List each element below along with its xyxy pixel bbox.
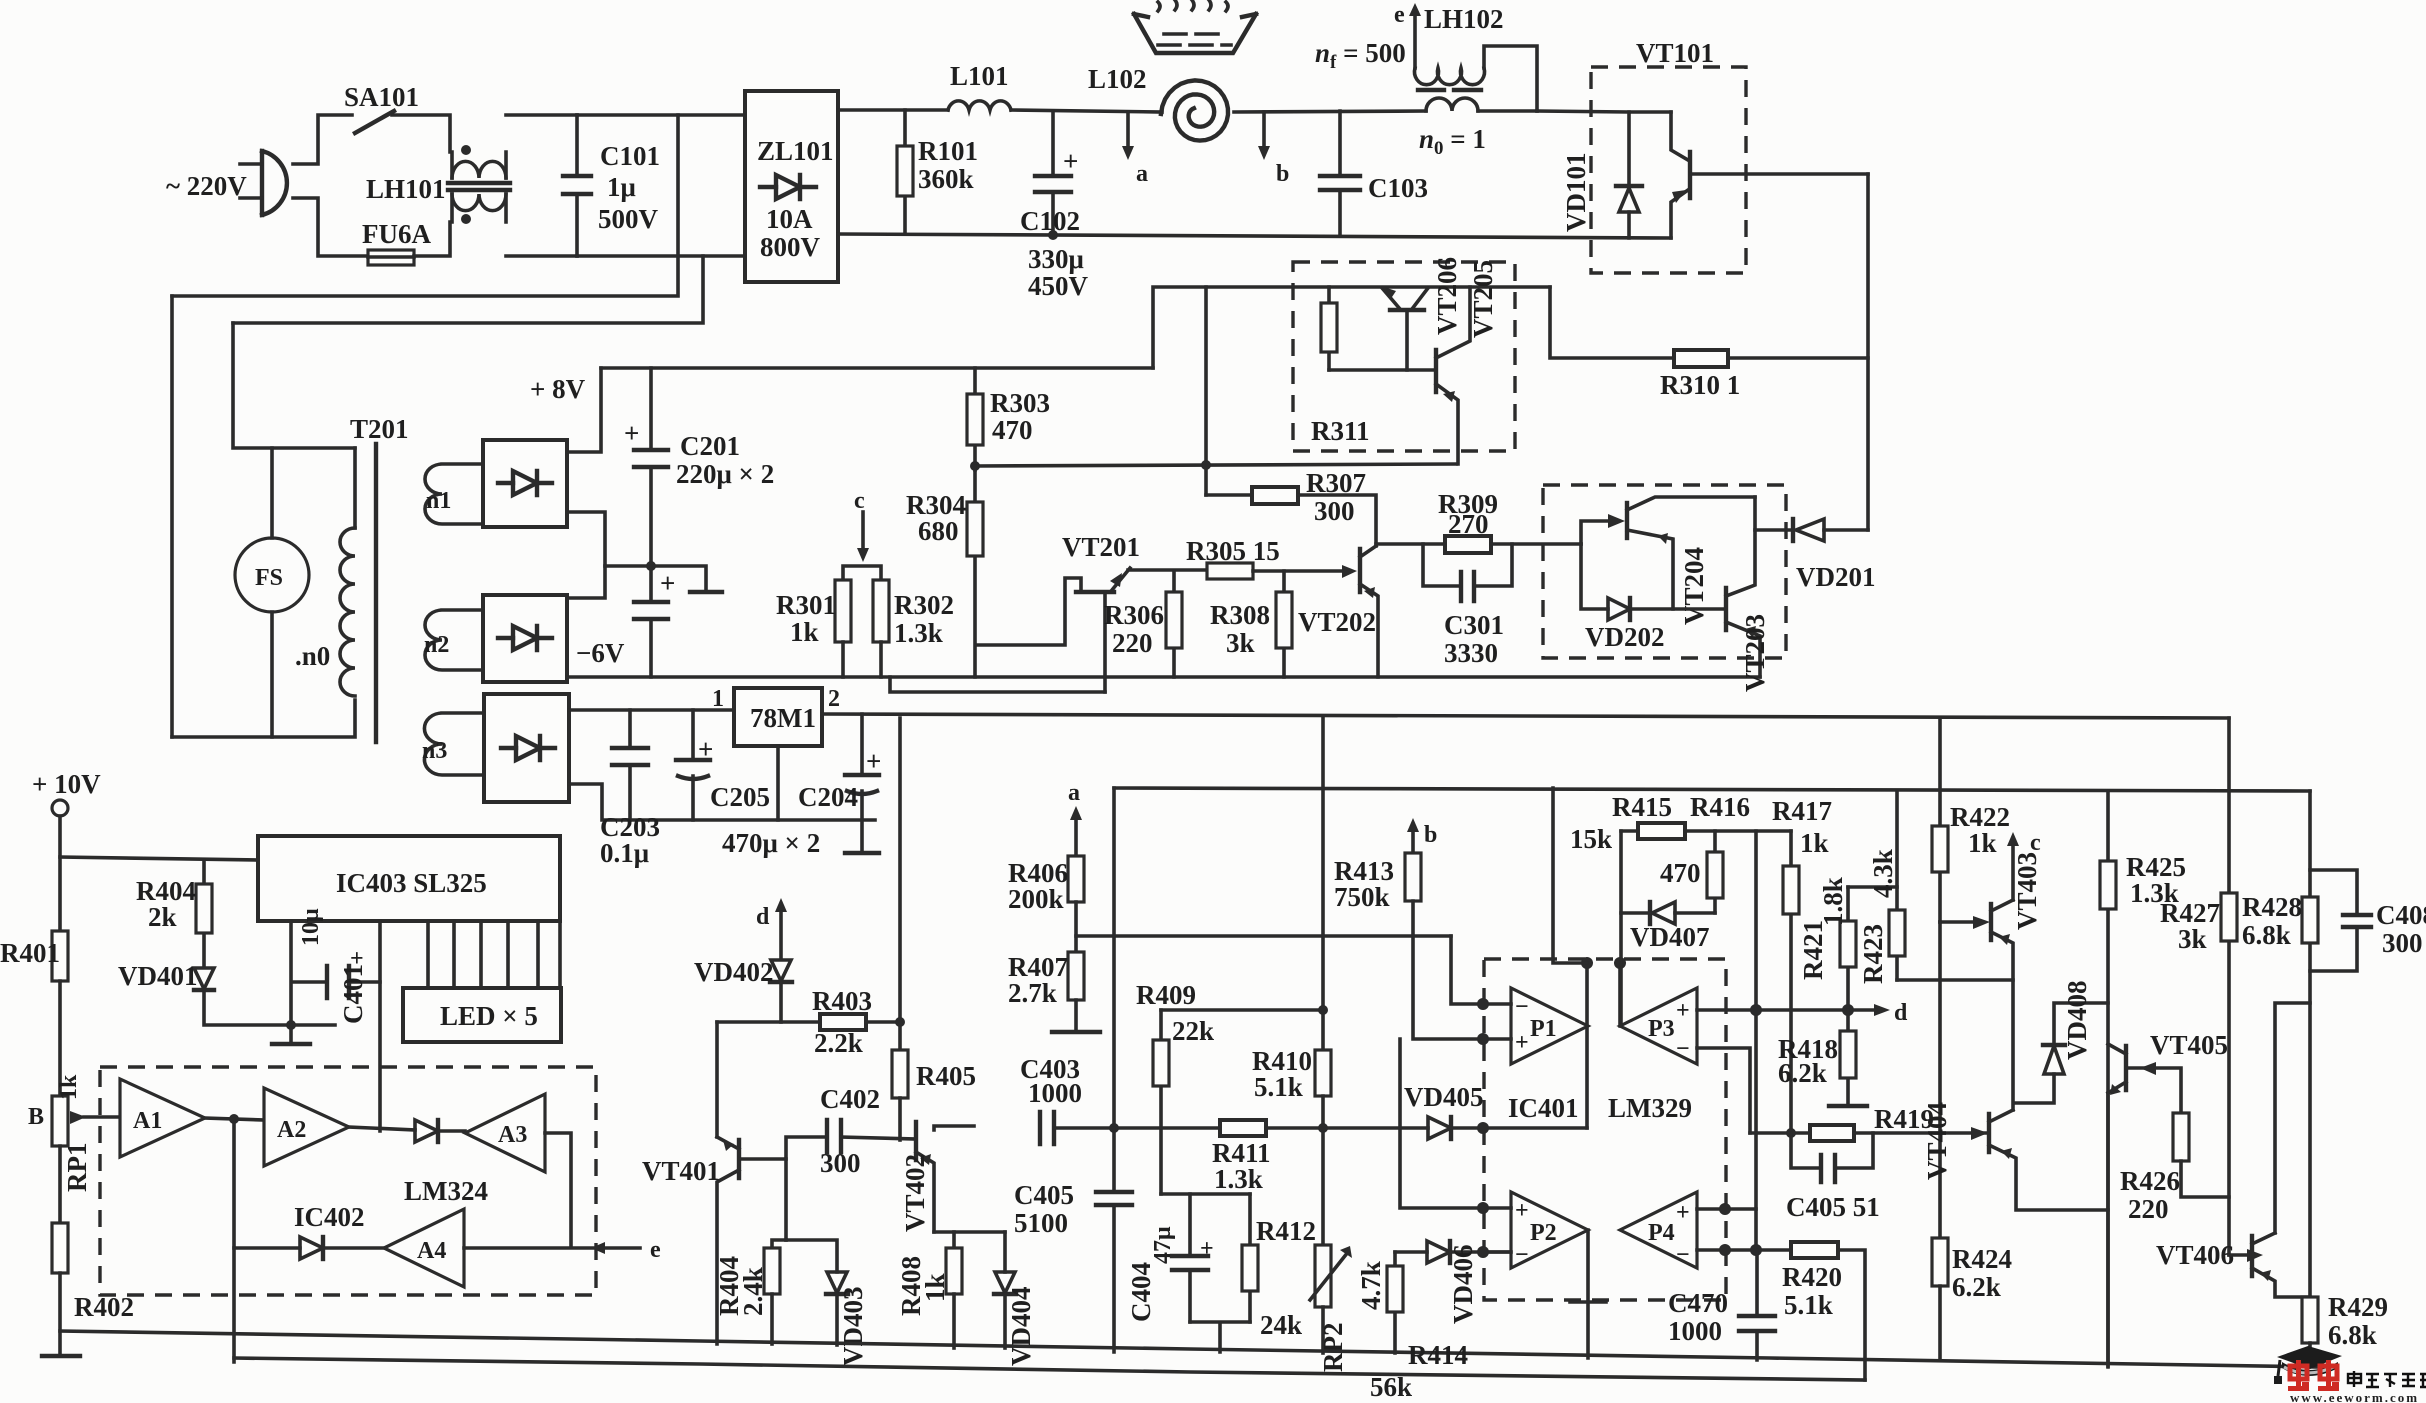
resistor R101 [903, 110, 907, 234]
wire P3+ to d [1697, 1008, 1848, 1012]
svg-text:800V: 800V [760, 232, 821, 262]
svg-text:C204: C204 [798, 782, 858, 812]
transistor VT204 [1581, 521, 1608, 544]
svg-text:R405: R405 [916, 1061, 976, 1091]
watermark cap logo [2277, 1346, 2342, 1369]
diode VD201 [1796, 519, 1824, 541]
SEC4 [776, 257, 1876, 692]
svg-text:2.7k: 2.7k [1008, 978, 1057, 1008]
diode VD407 [1619, 831, 1623, 1026]
svg-text:6.8k: 6.8k [2242, 920, 2291, 950]
SEC11 [2274, 1346, 2426, 1403]
svg-text:220μ × 2: 220μ × 2 [676, 459, 774, 489]
svg-text:+: + [698, 734, 713, 764]
wire fuse to LH101 bottom [414, 222, 450, 256]
svg-text:T201: T201 [350, 414, 409, 444]
diode VD403 [786, 1240, 837, 1272]
svg-text:−: − [1676, 1036, 1690, 1062]
wire AC-L to T201 primary [170, 296, 174, 737]
resistor R406 [1068, 856, 1084, 902]
SEC5 [0, 769, 661, 1362]
svg-text:1μ: 1μ [607, 172, 636, 202]
wire switch to LH101 [392, 115, 450, 152]
svg-text:220: 220 [1112, 628, 1153, 658]
svg-text:1k: 1k [1968, 828, 1997, 858]
svg-text:C470: C470 [1668, 1288, 1728, 1318]
wire P4- to R420 [1697, 1248, 1791, 1252]
svg-text:−6V: −6V [576, 638, 625, 668]
svg-text:b: b [1424, 822, 1437, 848]
svg-text:R409: R409 [1136, 980, 1196, 1010]
wire R409 top [1161, 1008, 1323, 1012]
bridge rectifier D-n3 [484, 694, 569, 802]
op-amp P1 [1511, 988, 1588, 1064]
resistor R410 [1315, 1050, 1331, 1096]
wire C101 to ZL101 bottom [577, 254, 745, 258]
node e arrow [1413, 16, 1417, 68]
wire A1 to A2 [205, 1118, 264, 1120]
diode D-A4 [300, 1237, 323, 1259]
op-amp P3 [1620, 988, 1697, 1064]
ground at C201 [651, 566, 706, 591]
resistor R425 [2106, 791, 2110, 1367]
winding n2 [425, 610, 483, 670]
svg-text:360k: 360k [918, 164, 974, 194]
diode VD202 [1581, 544, 1608, 609]
svg-text:1: 1 [712, 686, 724, 712]
capacitor C201 lower [649, 566, 653, 677]
wire R311 to R310 [1550, 287, 1674, 358]
wire A-block drop [232, 1248, 236, 1362]
svg-text:200k: 200k [1008, 884, 1064, 914]
module box R311 [1293, 262, 1515, 451]
wire bridge3 return [569, 784, 875, 820]
resistor R301 [835, 580, 851, 642]
wire plug to switch [293, 115, 352, 164]
resistor R311-int [1327, 287, 1331, 370]
svg-text:VT205: VT205 [1468, 260, 1498, 338]
bridge rectifier D-n2 [483, 595, 567, 682]
capacitor C203 [628, 710, 632, 820]
svg-text:IC402: IC402 [294, 1202, 365, 1232]
wire bridge3 to 78M1 [569, 708, 734, 712]
ZL101 diode symbol [760, 175, 816, 199]
svg-text:R412: R412 [1256, 1216, 1316, 1246]
capacitor C405b [1112, 1128, 1116, 1352]
svg-text:R303: R303 [990, 388, 1050, 418]
wire tap to P1- [1451, 936, 1483, 1004]
wire L101 to L102 [1011, 110, 1162, 112]
svg-text:VD101: VD101 [1561, 153, 1591, 233]
svg-text:3330: 3330 [1444, 638, 1498, 668]
svg-text:C408: C408 [2376, 900, 2426, 930]
resistor R429 [2302, 1297, 2318, 1343]
wire tap L down (x678) [172, 115, 678, 296]
capacitor C205 [691, 710, 695, 820]
diode VD101 [1627, 112, 1631, 238]
op-amp P2 [1511, 1192, 1588, 1268]
svg-text:ZL101: ZL101 [757, 136, 834, 166]
svg-text:5.1k: 5.1k [1784, 1290, 1833, 1320]
transistor VT101 [1671, 112, 1688, 160]
svg-text:b: b [1276, 161, 1289, 187]
svg-text:R426: R426 [2120, 1166, 2180, 1196]
svg-text:~ 220V: ~ 220V [166, 171, 247, 201]
svg-text:300: 300 [2382, 928, 2423, 958]
P1/P3 output risers [1587, 963, 1620, 1128]
svg-text:R301: R301 [776, 590, 836, 620]
SEC8 [1477, 788, 1988, 1380]
svg-text:300: 300 [820, 1148, 861, 1178]
riser from y788 [1553, 788, 1587, 963]
svg-text:R415: R415 [1612, 792, 1672, 822]
capacitor C102 [1051, 111, 1055, 235]
wire A2 out [349, 1127, 415, 1130]
svg-text:C103: C103 [1368, 173, 1428, 203]
resistor R404 [202, 860, 206, 966]
op-amp A1 [120, 1079, 205, 1157]
svg-text:300: 300 [1314, 496, 1355, 526]
bridge rectifier D-n1 [483, 440, 567, 527]
wire R303/R304 node [975, 464, 1456, 466]
svg-text:e: e [650, 1237, 661, 1263]
wire riser to R307 [1204, 287, 1208, 495]
svg-text:R428: R428 [2242, 892, 2302, 922]
resistor R401 [52, 931, 68, 981]
svg-text:VD401: VD401 [118, 961, 198, 991]
P2 output to gnd rail [1586, 1230, 1590, 1358]
wire c split [843, 566, 881, 580]
svg-text:+: + [1515, 1198, 1529, 1224]
resistor R308 [1282, 571, 1286, 677]
wire VT201 emitter to rail [890, 677, 1105, 692]
wire VT201 collector to R305 line [1128, 568, 1206, 572]
svg-text:C205: C205 [710, 782, 770, 812]
svg-text:L102: L102 [1088, 64, 1147, 94]
wire A3 in from right [545, 1133, 571, 1246]
wire +8V up to R311 feed [1153, 287, 1550, 368]
svg-text:VD201: VD201 [1796, 562, 1876, 592]
svg-text:330μ: 330μ [1028, 244, 1084, 274]
SEC1 [838, 0, 1671, 301]
svg-text:R414: R414 [1408, 1340, 1468, 1370]
wire P3- down [1697, 1048, 1750, 1133]
riser V2 R428 [2308, 791, 2312, 1297]
wire R413 to P1+/P2+ [1400, 901, 1483, 1208]
svg-text:VT204: VT204 [1679, 547, 1709, 625]
svg-text:VT406: VT406 [2156, 1240, 2234, 1270]
svg-text:R423: R423 [1858, 924, 1888, 984]
node C102 [1048, 230, 1058, 240]
resistor R423 [1848, 885, 1897, 889]
fan motor FS [235, 538, 309, 612]
LH102 secondary winding nf [1414, 68, 1484, 85]
resistor R412 [1248, 1194, 1252, 1322]
node C401 gnd [286, 1020, 296, 1030]
svg-text:+: + [1063, 146, 1078, 176]
transistor VT203 [1724, 588, 1728, 630]
riser V1 R427 [2227, 718, 2231, 1255]
svg-text:1.3k: 1.3k [1214, 1164, 1263, 1194]
svg-text:VT101: VT101 [1636, 38, 1714, 68]
steam [1158, 0, 1228, 11]
svg-text:6.2k: 6.2k [1778, 1058, 1827, 1088]
svg-text:P4: P4 [1648, 1220, 1675, 1246]
resistor R306 [1172, 571, 1176, 677]
wire ZL101 DC- out [838, 234, 1671, 238]
svg-text:R308: R308 [1210, 600, 1270, 630]
svg-text:1000: 1000 [1668, 1316, 1722, 1346]
svg-text:LH102: LH102 [1424, 4, 1504, 34]
svg-text:24k: 24k [1260, 1310, 1302, 1340]
LED display box [403, 988, 561, 1042]
LH102 secondary right lead [1484, 46, 1537, 111]
SEC6 [642, 718, 1036, 1366]
svg-text:R420: R420 [1782, 1262, 1842, 1292]
resistor R303 [973, 368, 977, 470]
svg-text:A2: A2 [277, 1117, 306, 1143]
watermark site name glyphs [2348, 1371, 2426, 1387]
wire tap N down (x703) [233, 256, 703, 323]
svg-text:C101: C101 [600, 141, 660, 171]
svg-text:VT405: VT405 [2150, 1030, 2228, 1060]
svg-text:+ 8V: + 8V [530, 374, 586, 404]
svg-text:VT403: VT403 [2012, 852, 2042, 930]
svg-text:2: 2 [828, 686, 840, 712]
svg-text:−: − [1515, 994, 1529, 1020]
SEC10 [60, 1093, 2320, 1402]
svg-text:C405 51: C405 51 [1786, 1192, 1880, 1222]
divider tap wire [1076, 934, 1451, 938]
LH102 core bars [1418, 88, 1481, 92]
wire +10V branch [60, 857, 258, 860]
svg-text:R307: R307 [1306, 468, 1366, 498]
svg-text:.n0: .n0 [295, 641, 330, 671]
svg-text:C404: C404 [1126, 1262, 1156, 1322]
svg-text:LED × 5: LED × 5 [440, 1001, 538, 1031]
svg-text:+: + [624, 418, 639, 448]
svg-text:0.1μ: 0.1μ [600, 838, 649, 868]
svg-text:A4: A4 [417, 1238, 446, 1264]
resistor R302 [873, 580, 889, 642]
winding n1 [425, 464, 483, 524]
capacitor C401 [291, 921, 380, 1025]
capacitor C402 [827, 1120, 841, 1152]
capacitor C101 [575, 115, 579, 256]
capacitor C404 [1188, 1194, 1192, 1322]
ground at R402 [42, 1354, 80, 1358]
capacitor C403 [1040, 1112, 1054, 1144]
SEC3 [172, 296, 2229, 868]
svg-text:VD408: VD408 [2062, 981, 2092, 1061]
svg-text:R417: R417 [1772, 796, 1832, 826]
wire L102 to LH102 [1234, 111, 1426, 112]
svg-text:RP1: RP1 [62, 1143, 92, 1193]
svg-text:−: − [1676, 1242, 1690, 1268]
svg-text:P1: P1 [1530, 1016, 1557, 1042]
ground at R418 [1829, 1104, 1867, 1108]
svg-text:L101: L101 [950, 61, 1009, 91]
svg-text:LM329: LM329 [1608, 1093, 1692, 1123]
wire VT401 base [740, 1137, 824, 1159]
resistor R407 [1068, 952, 1084, 1000]
T201 core [374, 444, 378, 742]
svg-text:LH101: LH101 [366, 174, 446, 204]
resistor R418 [1846, 1010, 1850, 1104]
svg-text:P3: P3 [1648, 1016, 1675, 1042]
svg-text:1k: 1k [790, 617, 819, 647]
svg-text:B: B [28, 1104, 44, 1130]
long feed y788 [1114, 788, 2310, 791]
wire bridge1 to +8V riser [567, 368, 601, 452]
potentiometer RP2 [1315, 1245, 1331, 1307]
resistor R-4.7k [1393, 1252, 1397, 1353]
T201 primary winding n0 [172, 448, 355, 737]
svg-text:VD202: VD202 [1585, 622, 1665, 652]
svg-text:+: + [1515, 1030, 1529, 1056]
transistor VT403 [1940, 920, 1973, 924]
svg-text:n1: n1 [426, 488, 451, 514]
potentiometer RP1 [52, 1096, 68, 1146]
riser from bus to R403/R405 [898, 718, 902, 1050]
resistor R413 [1405, 853, 1421, 901]
svg-text:VD406: VD406 [1448, 1245, 1478, 1325]
svg-text:R429: R429 [2328, 1292, 2388, 1322]
svg-text:1k: 1k [56, 1074, 82, 1100]
resistor R404b 2.4k [772, 1240, 786, 1248]
SEC9 [1897, 718, 2426, 1367]
op-amp A4 [384, 1209, 464, 1287]
watermark chongchong red glyph1 [2288, 1360, 2309, 1391]
LH101 phase dots [461, 145, 471, 155]
wire LH101 to C101 bottom [506, 254, 577, 258]
svg-text:d: d [756, 904, 770, 930]
svg-text:220: 220 [2128, 1194, 2169, 1224]
wire LH101 to C101 top [506, 113, 577, 117]
comparator block IC401 dashed box [1484, 959, 1726, 1300]
LH101 top winding [452, 161, 506, 178]
svg-text:+ 10V: + 10V [32, 769, 101, 799]
svg-text:C401: C401 [338, 964, 368, 1024]
op-amp P4 [1620, 1192, 1697, 1268]
svg-text:R424: R424 [1952, 1244, 2012, 1274]
resistor R426 [2173, 1113, 2189, 1161]
svg-text:+: + [1200, 1236, 1214, 1262]
IC403 box [258, 836, 560, 921]
watermark chongchong red glyph2 [2318, 1360, 2339, 1391]
svg-text:www.eeworm.com: www.eeworm.com [2290, 1390, 2419, 1403]
transistor VT206 [1382, 288, 1428, 309]
svg-text:R302: R302 [894, 590, 954, 620]
op-amp A2 [264, 1088, 349, 1166]
node C201 mid [646, 561, 656, 571]
svg-text:−: − [1515, 1242, 1529, 1268]
capacitor C201 upper [649, 368, 653, 566]
bus 78M1 out [822, 714, 2229, 718]
svg-text:R101: R101 [918, 136, 978, 166]
cooking pot [1134, 14, 1256, 53]
svg-text:SA101: SA101 [344, 82, 419, 112]
node a arrow [1126, 112, 1130, 146]
transistor VT404 [1971, 1127, 1988, 1140]
combo bottom wire [1190, 1322, 1250, 1352]
svg-text:470: 470 [1660, 858, 1701, 888]
op-amp A3 [465, 1094, 545, 1172]
svg-text:15k: 15k [1570, 824, 1612, 854]
svg-text:e: e [1394, 2, 1405, 28]
svg-text:VD403: VD403 [838, 1287, 868, 1367]
LH101 bottom winding [452, 194, 506, 211]
svg-text:4.3k: 4.3k [1868, 849, 1898, 898]
svg-text:4.7k: 4.7k [1356, 1261, 1386, 1310]
svg-text:d: d [1894, 1000, 1908, 1026]
winding n3 [424, 713, 484, 775]
wire plug to fuse [293, 198, 368, 256]
svg-text:1.8k: 1.8k [1818, 877, 1848, 926]
svg-text:nf = 500: nf = 500 [1315, 38, 1406, 73]
svg-text:C301: C301 [1444, 610, 1504, 640]
svg-text:a: a [1068, 780, 1080, 806]
svg-text:VT404: VT404 [1922, 1102, 1952, 1180]
module box VT101 [1591, 67, 1746, 273]
wire P4+ [1697, 1207, 1756, 1211]
IC403 pins to LED [428, 921, 560, 988]
svg-text:2k: 2k [148, 902, 177, 932]
svg-text:VT202: VT202 [1298, 607, 1376, 637]
wire C101 to ZL101 top [577, 113, 745, 117]
node e arrow [591, 1242, 605, 1254]
capacitor C408 [2310, 870, 2357, 971]
wire VT101 right drop [1866, 174, 1870, 530]
svg-text:C102: C102 [1020, 206, 1080, 236]
wire A4 to e [464, 1246, 640, 1250]
svg-text:n2: n2 [424, 632, 449, 658]
wire VT402 emitter [934, 1230, 1005, 1234]
svg-text:3k: 3k [2178, 924, 2207, 954]
svg-text:R306: R306 [1104, 600, 1164, 630]
svg-text:VT203: VT203 [1740, 614, 1770, 692]
svg-text:5100: 5100 [1014, 1208, 1068, 1238]
svg-text:VD405: VD405 [1404, 1082, 1484, 1112]
svg-text:RP2: RP2 [1318, 1323, 1348, 1373]
wire AC-N to T201 primary top [233, 323, 355, 448]
wire ZL101 DC+ out [838, 108, 948, 112]
bus riser x1323 [1321, 718, 1325, 1050]
wire R423 bottom to emitter [1897, 980, 2013, 1110]
diode D-A2A3 [415, 1120, 438, 1142]
svg-text:P2: P2 [1530, 1220, 1557, 1246]
svg-text:22k: 22k [1172, 1016, 1214, 1046]
svg-text:3k: 3k [1226, 628, 1255, 658]
wire bridge1 to mid node [567, 512, 605, 598]
svg-text:R401: R401 [0, 938, 60, 968]
svg-text:C405: C405 [1014, 1180, 1074, 1210]
svg-text:450V: 450V [1028, 271, 1089, 301]
wire VT403 base drop [1938, 922, 1942, 1238]
svg-text:VD404: VD404 [1006, 1287, 1036, 1367]
resistor R408 [952, 1232, 956, 1248]
svg-text:VT402: VT402 [900, 1154, 930, 1232]
svg-text:2.4k: 2.4k [738, 1267, 768, 1316]
svg-text:78M1: 78M1 [750, 703, 816, 733]
svg-text:2.2k: 2.2k [814, 1028, 863, 1058]
svg-text:IC403 SL325: IC403 SL325 [336, 868, 487, 898]
resistor R307 [1206, 493, 1252, 497]
svg-text:n3: n3 [422, 738, 447, 764]
capacitor C470 [1755, 1250, 1759, 1360]
resistor R403 [820, 1014, 866, 1030]
wire A4 net [234, 1119, 300, 1248]
